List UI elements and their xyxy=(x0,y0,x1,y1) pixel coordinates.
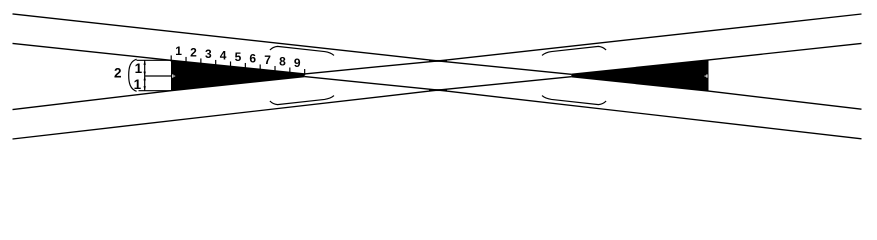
svg-text:1: 1 xyxy=(134,77,142,92)
svg-text:4: 4 xyxy=(220,49,227,63)
svg-text:2: 2 xyxy=(114,65,122,80)
check rail above rail B2 opposite left frog xyxy=(270,96,334,105)
tick 5 on left frog xyxy=(244,63,246,69)
svg-text:3: 3 xyxy=(205,47,212,61)
svg-text:5: 5 xyxy=(235,50,242,64)
svg-text:2: 2 xyxy=(190,46,197,60)
svg-text:1: 1 xyxy=(135,61,143,76)
rail A2 continuation from left frog blunt face through bottom crossing to right edge xyxy=(305,77,862,139)
check rail above rail A2 opposite right frog xyxy=(542,96,606,105)
top crossing overlap bar xyxy=(429,60,447,62)
svg-text:6: 6 xyxy=(249,52,256,66)
rail A1 upper rail of left-to-right descending track, left part through top crossing to right frog tip xyxy=(13,14,572,74)
tick 9 on left frog xyxy=(304,69,306,75)
rail B1 continuation from left frog blunt face through top crossing to right edge xyxy=(305,14,862,74)
tick 0 on left frog xyxy=(170,55,172,61)
left frog black wedge xyxy=(171,60,305,90)
svg-text:1: 1 xyxy=(175,44,182,58)
tick 6 on left frog xyxy=(259,64,261,70)
rail B2 continuation from right frog face to right edge xyxy=(571,43,861,74)
tick 4 on left frog xyxy=(230,61,232,67)
brace grouping the two half dimensions xyxy=(129,59,137,91)
tick 3 on left frog xyxy=(215,60,217,66)
tick 8 on left frog xyxy=(289,67,291,73)
upper extension line at frog face top corner level xyxy=(137,59,172,61)
bottom crossing overlap bar xyxy=(429,89,447,91)
upper dimension line with arrowheads xyxy=(144,60,146,76)
centre leader line to left frog face xyxy=(145,75,172,77)
lower dimension line with arrowheads xyxy=(144,76,146,91)
rail B2 lower rail of ascending track, left part through bottom crossing to right frog tip xyxy=(13,77,572,139)
tick 1 on left frog xyxy=(185,57,187,63)
svg-text:7: 7 xyxy=(264,53,271,67)
white arrowhead on left frog face xyxy=(172,74,175,77)
white arrowhead on right frog face xyxy=(705,74,708,77)
rail A2 lower rail of descending track, left part to left frog tip xyxy=(13,43,305,74)
svg-text:8: 8 xyxy=(279,55,286,69)
lower extension line at frog face bottom corner level xyxy=(139,90,172,92)
check rail below rail B1 opposite right frog xyxy=(542,46,606,55)
right frog black wedge xyxy=(571,60,708,91)
check rail below rail A1 opposite left frog xyxy=(270,46,334,55)
rail B1 upper rail of ascending track, left part to left frog tip xyxy=(13,77,305,110)
rail A1 continuation from right frog face to right edge xyxy=(571,77,861,110)
tick 7 on left frog xyxy=(274,66,276,72)
svg-text:9: 9 xyxy=(294,56,301,70)
tick 2 on left frog xyxy=(200,58,202,64)
